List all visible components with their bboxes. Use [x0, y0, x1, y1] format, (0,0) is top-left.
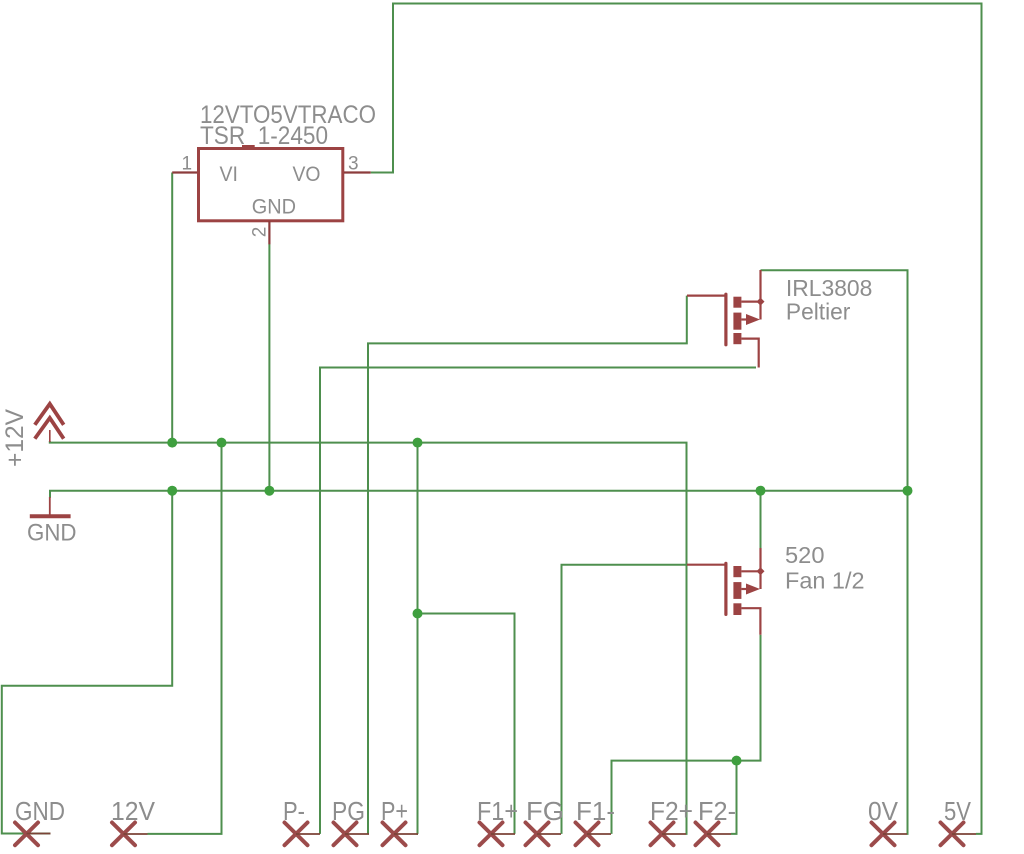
- Q2 channel segments: [733, 566, 741, 615]
- Q2 body arrow lead: [741, 588, 747, 590]
- pad F1+ cross: [480, 823, 503, 846]
- pad F2- pin stub: [707, 833, 731, 835]
- pad PG pin stub: [345, 833, 369, 835]
- wire Q2 gate to FG pad: [562, 565, 688, 834]
- svg-text:P-: P-: [283, 796, 305, 826]
- wire Q1 source to P- pad: [320, 368, 756, 834]
- wire net +12V: rail from supply symbol to F2+ drop: [50, 441, 687, 834]
- Q2 drain lead: [741, 570, 761, 572]
- pad F1+ pin stub: [491, 833, 515, 835]
- supply symbol +12V stub: [49, 430, 51, 442]
- svg-text:+12V: +12V: [1, 409, 29, 467]
- Q1 drain lead: [741, 301, 760, 303]
- supply symbol +12V chevrons: [35, 404, 64, 439]
- svg-text:IRL3808: IRL3808: [786, 275, 873, 301]
- svg-text:Fan 1/2: Fan 1/2: [785, 568, 865, 594]
- transistor Q1 IRL3808: [687, 270, 765, 368]
- pad 12V pin stub: [124, 833, 148, 835]
- svg-text:F1+: F1+: [477, 796, 518, 826]
- pad F2+ cross: [651, 823, 674, 846]
- svg-text:P+: P+: [381, 796, 408, 826]
- svg-text:VO: VO: [293, 163, 321, 186]
- svg-text:2: 2: [250, 227, 271, 238]
- junction on GND rail at U1 pin2: [264, 486, 274, 496]
- svg-text:F1-: F1-: [576, 796, 615, 826]
- svg-text:VI: VI: [220, 163, 239, 186]
- junction on GND rail at pad run: [167, 486, 177, 496]
- Q1 gate lead: [687, 295, 725, 297]
- svg-text:520: 520: [785, 542, 825, 568]
- pad F2+ pin stub: [662, 833, 686, 835]
- junction Q2 source F2- branch: [732, 756, 742, 766]
- pad GND pin stub: [27, 833, 51, 835]
- svg-text:1: 1: [182, 154, 193, 175]
- wire branch to F2- pad: [731, 761, 737, 834]
- wire net GND: horizontal rail: [50, 491, 908, 498]
- pad GND cross: [15, 823, 38, 846]
- pad 0V cross: [872, 823, 895, 846]
- junction on +12V rail at VI riser: [167, 438, 177, 448]
- svg-text:GND: GND: [27, 520, 77, 547]
- ground symbol stub: [49, 497, 51, 515]
- pad P+ cross: [383, 823, 406, 846]
- Q1 body vertical: [759, 302, 761, 320]
- voltage regulator U1 box TSR_1-2450: [199, 149, 343, 221]
- pad P+ pin stub: [394, 833, 418, 835]
- svg-text:FG: FG: [526, 796, 564, 826]
- pad P- cross: [285, 823, 308, 846]
- Q2 drain vertical: [759, 548, 761, 571]
- junction P+ net F1+ branch: [413, 609, 423, 619]
- svg-text:GND: GND: [15, 796, 65, 826]
- U1 top tick mark: [242, 145, 255, 148]
- pad F2- cross: [696, 823, 719, 846]
- wire Q1 drain to 0V pad riser: [761, 270, 908, 834]
- ground symbol bar: [30, 514, 71, 518]
- Q2 gate lead: [687, 564, 725, 566]
- wire Q2 drain to GND rail: [760, 491, 762, 548]
- U1 pin 3 stub: [344, 171, 371, 173]
- pad FG cross: [526, 823, 549, 846]
- svg-text:5V: 5V: [944, 796, 972, 826]
- Q1 gate bar: [724, 294, 727, 345]
- pad 5V pin stub: [952, 833, 976, 835]
- svg-text:3: 3: [348, 154, 359, 175]
- pad PG cross: [334, 823, 357, 846]
- junction on +12V rail at 12V pad riser: [217, 438, 227, 448]
- wire net 5V: VO pin3 up over the top and down right side: [371, 4, 982, 834]
- wire net 12V pad riser: [148, 443, 222, 834]
- Q2 source lead: [741, 608, 760, 635]
- wire Q1 gate to PG pad: [368, 296, 687, 834]
- Q2 body arrow: [746, 584, 760, 595]
- svg-text:Peltier: Peltier: [786, 298, 851, 324]
- pad F1- cross: [576, 823, 599, 846]
- transistor Q2 520 Fan driver: [687, 548, 765, 635]
- wire +12V to P+ pad: [417, 443, 420, 834]
- Q2 body junction diamond: [757, 567, 765, 575]
- pad P- pin stub: [296, 833, 320, 835]
- wire net GND: run to GND pad bottom-left: [2, 491, 172, 834]
- svg-text:PG: PG: [332, 796, 365, 826]
- U1 pin 1 stub: [172, 171, 197, 173]
- Q1 source lead: [741, 339, 758, 368]
- pad F1- pin stub: [587, 833, 611, 835]
- pad FG pin stub: [537, 833, 561, 835]
- Q1 body junction diamond: [757, 298, 765, 306]
- pad 12V cross: [112, 823, 135, 846]
- Q1 drain vertical: [759, 270, 761, 302]
- svg-text:0V: 0V: [868, 796, 899, 826]
- svg-text:12V: 12V: [111, 796, 156, 826]
- Q1 body arrow lead: [741, 318, 747, 320]
- junction on GND rail at Q2 drain: [756, 486, 766, 496]
- svg-text:F2+: F2+: [650, 796, 693, 826]
- Q2 body vertical: [759, 571, 761, 589]
- wire U1 pin1 VI to +12V rail: [171, 173, 173, 443]
- svg-text:GND: GND: [252, 196, 296, 219]
- svg-text:F2-: F2-: [698, 796, 736, 826]
- wire Q2 source to F1- pad: [612, 635, 761, 834]
- junction on GND rail at 0V riser: [903, 486, 913, 496]
- pad 0V pin stub: [883, 833, 907, 835]
- junction on +12V rail at P+ riser: [413, 438, 423, 448]
- Q1 body arrow: [746, 314, 760, 325]
- wire branch to F1+ pad: [418, 614, 515, 834]
- Q1 channel segments: [733, 297, 741, 345]
- pad 5V cross: [941, 823, 964, 846]
- wire U1 pin2 GND to GND rail: [268, 244, 270, 491]
- Q2 gate bar: [724, 563, 727, 614]
- svg-text:12VTO5VTRACO: 12VTO5VTRACO: [200, 101, 376, 129]
- U1 pin 2 stub: [268, 221, 270, 244]
